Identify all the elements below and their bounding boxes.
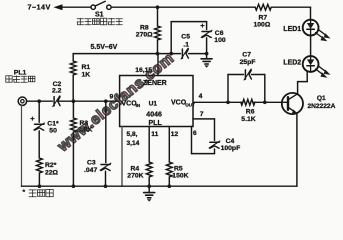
svg-text:R4: R4 <box>131 165 140 172</box>
svg-text:R1: R1 <box>82 64 91 71</box>
wire C4 to pin 6 <box>192 127 215 154</box>
svg-text:C1*: C1* <box>47 121 59 128</box>
svg-text:7: 7 <box>200 111 204 118</box>
resistor R6 5.1K <box>241 99 256 122</box>
node junction rail / pins 16,15 <box>156 52 160 56</box>
resistor R1 1K <box>70 54 90 102</box>
svg-text:2.2: 2.2 <box>52 88 62 95</box>
svg-text:S1: S1 <box>95 12 104 19</box>
wire pin 7 to C4 <box>193 111 215 140</box>
wire connector shell to ground rail <box>21 105 23 186</box>
svg-text:R5: R5 <box>174 165 183 172</box>
capacitor C2 2.2uF <box>52 81 62 107</box>
svg-text:25pF: 25pF <box>240 59 256 66</box>
wire Q1 emitter to ground rail <box>296 113 298 186</box>
node junction input / C3 <box>104 99 108 103</box>
label PL1 audio input <box>6 69 35 82</box>
watermark www.elecfans.com <box>54 50 177 156</box>
resistor R7 100ohm <box>254 4 272 28</box>
svg-text:100Ω: 100Ω <box>254 21 271 28</box>
svg-text:50: 50 <box>49 128 57 135</box>
capacitor C5 0.1 <box>181 33 190 59</box>
svg-text:OUT: OUT <box>185 102 195 107</box>
svg-text:5,8,: 5,8, <box>127 131 138 138</box>
capacitor C3 .047 <box>84 101 111 186</box>
capacitor C6 100uF <box>200 21 226 44</box>
node junctions on ground rail <box>38 184 42 188</box>
svg-text:C4: C4 <box>226 138 235 145</box>
node junction input / R1 R3 <box>72 99 76 103</box>
svg-text:IN: IN <box>136 103 141 108</box>
resistor R2 22ohm <box>37 131 59 186</box>
svg-text:12: 12 <box>171 131 179 138</box>
svg-text:PL1: PL1 <box>14 69 27 76</box>
svg-text:+: + <box>30 114 35 123</box>
svg-text:U1: U1 <box>149 100 158 107</box>
node junction rail / ground <box>205 52 209 56</box>
svg-text:5.5V–6V: 5.5V–6V <box>91 44 118 51</box>
resistor R8 270ohm <box>136 7 161 53</box>
wire audio input to pin 9 <box>27 100 120 102</box>
wire pins 5,8,3,14 to ground rail <box>122 127 140 187</box>
wire LED2 to Q1 collector <box>298 71 308 93</box>
label switch chinese 单刀单掷开关 <box>77 18 122 25</box>
LED2 <box>283 56 330 78</box>
svg-text:.1: .1 <box>183 42 189 49</box>
capacitor C4 100pF <box>209 138 240 154</box>
svg-text:C7: C7 <box>242 52 251 59</box>
ground symbol at R4 <box>144 186 155 201</box>
svg-text:4: 4 <box>199 93 203 100</box>
svg-text:R6: R6 <box>246 108 255 115</box>
svg-text:LED1: LED1 <box>283 26 301 33</box>
svg-text:100: 100 <box>214 37 226 44</box>
svg-text:C5: C5 <box>181 33 190 40</box>
LED1 <box>283 20 330 42</box>
svg-text:2N2222A: 2N2222A <box>308 103 336 110</box>
transistor Q1 2N2222A <box>282 93 336 114</box>
svg-text:150K: 150K <box>172 173 188 180</box>
svg-text:11: 11 <box>151 131 158 138</box>
svg-text:Q1: Q1 <box>317 95 326 102</box>
node junction base / C7 right <box>263 100 267 104</box>
svg-text:3,14: 3,14 <box>127 140 140 147</box>
svg-text:22Ω: 22Ω <box>45 170 59 177</box>
svg-text:R8: R8 <box>140 24 149 31</box>
svg-text:6: 6 <box>193 130 197 137</box>
node junction rail / C5 branch <box>169 52 173 56</box>
svg-text:4046: 4046 <box>146 111 162 118</box>
node junction pin4 / C7 left <box>226 100 230 104</box>
svg-text:1K: 1K <box>82 71 91 78</box>
svg-text:.047: .047 <box>84 167 97 174</box>
wire C6 bypass loop <box>171 22 206 54</box>
ground at C6 <box>201 54 212 68</box>
svg-text:+: + <box>200 21 205 30</box>
switch S1 <box>91 1 111 18</box>
node 7-14V supply arrow <box>28 3 63 12</box>
svg-text:7–14V: 7–14V <box>28 3 51 12</box>
svg-text:*: * <box>23 189 26 196</box>
svg-text:LED2: LED2 <box>283 60 301 67</box>
resistor R4 270K pin 11 <box>127 127 158 187</box>
wire top supply rail <box>58 7 311 20</box>
resistor R5 150K pin 12 <box>166 127 188 187</box>
connector PL1 jack <box>18 97 26 105</box>
svg-text:270Ω: 270Ω <box>136 32 153 39</box>
capacitor C7 25pF loop <box>228 52 265 103</box>
wire LED1 to LED2 <box>310 36 312 57</box>
ground rail bottom <box>22 185 297 187</box>
resistor R3 1.5K <box>71 101 93 186</box>
svg-text:C3: C3 <box>87 160 96 167</box>
wire pin 4 to Q1 base <box>193 93 288 102</box>
wire pin 16,15 to rail <box>135 54 158 76</box>
node junction input / C1 <box>37 99 41 103</box>
label see text 见正文 <box>23 189 54 197</box>
capacitor C1 50uF <box>30 101 59 134</box>
node junction top rail to R8 <box>156 5 160 9</box>
svg-text:100pF: 100pF <box>221 145 241 152</box>
wire 5.5-6V rail <box>73 53 206 55</box>
svg-text:R2*: R2* <box>45 162 57 169</box>
op IC U1 4046 box <box>120 76 195 128</box>
svg-text:5.1K: 5.1K <box>241 116 255 123</box>
svg-text:PLL: PLL <box>149 120 163 127</box>
svg-text:270K: 270K <box>127 173 143 180</box>
